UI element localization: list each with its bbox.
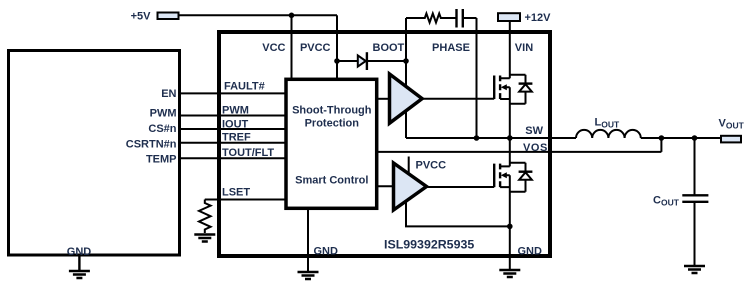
svg-text:PWM: PWM bbox=[222, 105, 249, 117]
wire +5V rail bbox=[180, 14, 338, 16]
node BOOT junction bbox=[403, 58, 409, 64]
svg-text:VIN: VIN bbox=[515, 42, 533, 54]
node COUT tap bbox=[692, 135, 698, 141]
svg-text:Shoot-Through: Shoot-Through bbox=[292, 104, 372, 116]
node PVCC junction bbox=[334, 58, 340, 64]
shoot-through / smart control block bbox=[286, 79, 377, 208]
ground (controller) bbox=[69, 256, 90, 278]
svg-text:ISL99392R5935: ISL99392R5935 bbox=[384, 238, 474, 252]
wire SW to QL drain bbox=[509, 138, 511, 166]
svg-text:GND: GND bbox=[518, 245, 543, 257]
wire TEMP to TOUT/FLT bbox=[179, 157, 286, 159]
svg-text:+5V: +5V bbox=[131, 11, 152, 23]
svg-text:GND: GND bbox=[314, 245, 339, 257]
wire VCC bbox=[291, 15, 293, 79]
svg-text:PVCC: PVCC bbox=[300, 42, 331, 54]
svg-text:LSET: LSET bbox=[222, 187, 250, 199]
svg-text:TOUT/FLT: TOUT/FLT bbox=[222, 147, 274, 159]
ground (COUT) bbox=[684, 266, 705, 273]
wire CS#n to IOUT bbox=[179, 128, 286, 130]
transistor Q L (low-side MOSFET) bbox=[494, 164, 500, 188]
wire driver L input bbox=[376, 185, 395, 187]
node VOS tap bbox=[659, 135, 665, 141]
svg-text:PVCC: PVCC bbox=[416, 160, 447, 172]
svg-text:CSRTN#n: CSRTN#n bbox=[126, 138, 177, 150]
wire EN to FAULT# bbox=[179, 92, 286, 94]
svg-text:VCC: VCC bbox=[262, 42, 285, 54]
wire PHASE vertical bbox=[476, 18, 478, 138]
ground (RSET) bbox=[194, 235, 215, 242]
diode body Q L bbox=[525, 163, 527, 192]
node VCC tap bbox=[289, 13, 295, 19]
svg-text:Protection: Protection bbox=[305, 117, 360, 129]
wire SW rail bbox=[406, 137, 576, 139]
wire driver H output to gate bbox=[422, 98, 494, 100]
svg-text:BOOT: BOOT bbox=[373, 42, 405, 54]
wire PVCC bbox=[336, 15, 338, 79]
wire BOOT vertical bbox=[405, 18, 407, 138]
capacitor COUT bbox=[694, 138, 696, 195]
svg-text:PHASE: PHASE bbox=[432, 42, 470, 54]
capacitor C boot bbox=[457, 9, 463, 28]
wire GND (mid) bbox=[307, 210, 309, 272]
op-amp U L (low-side driver) bbox=[394, 163, 427, 210]
wire cap to PHASE bbox=[464, 17, 477, 19]
wire LSET bbox=[205, 199, 286, 201]
svg-text:VOUT: VOUT bbox=[719, 117, 745, 130]
diode D1 (boot diode) bbox=[337, 60, 357, 62]
svg-text:COUT: COUT bbox=[653, 195, 680, 208]
svg-text:SW: SW bbox=[525, 125, 543, 137]
wire driver L output to gate bbox=[425, 186, 494, 188]
svg-text:EN: EN bbox=[161, 88, 176, 100]
wire PVCC stub (low driver) bbox=[408, 157, 410, 175]
node SW-FET junction bbox=[507, 135, 513, 141]
node PHASE-SW junction bbox=[474, 135, 480, 141]
svg-text:+12V: +12V bbox=[525, 12, 552, 24]
svg-text:PWM: PWM bbox=[150, 108, 177, 120]
ground (mid) bbox=[298, 272, 319, 279]
transistor Q H (high-side MOSFET) bbox=[494, 76, 500, 100]
wire driver L return bbox=[406, 198, 510, 226]
wire VOS sense bbox=[378, 138, 661, 152]
wire GND (right) bbox=[509, 226, 511, 270]
svg-text:FAULT#: FAULT# bbox=[224, 80, 265, 92]
svg-text:LOUT: LOUT bbox=[595, 116, 620, 129]
ground (right) bbox=[499, 270, 520, 277]
svg-text:CS#n: CS#n bbox=[148, 123, 176, 135]
svg-text:TEMP: TEMP bbox=[146, 154, 177, 166]
svg-text:Smart Control: Smart Control bbox=[295, 175, 368, 187]
svg-text:TREF: TREF bbox=[222, 132, 251, 144]
supply +12V bbox=[498, 13, 520, 21]
wire CSRTN#n to TREF bbox=[179, 142, 286, 144]
node QL source junction bbox=[507, 224, 513, 230]
controller block U2 bbox=[9, 51, 180, 256]
wire PWM to PWM bbox=[179, 115, 286, 117]
op-amp U H (high-side driver) bbox=[390, 74, 423, 123]
IC box ISL99392R5935 bbox=[219, 32, 550, 256]
wire driver H input bbox=[376, 98, 391, 100]
wire VIN vertical bbox=[509, 22, 511, 78]
diode body Q H bbox=[525, 75, 527, 104]
resistor RSET bbox=[199, 200, 211, 234]
wire LOUT to VOUT bbox=[641, 137, 721, 139]
inductor LOUT bbox=[576, 130, 641, 138]
resistor R boot bbox=[406, 14, 456, 23]
svg-text:IOUT: IOUT bbox=[222, 119, 249, 131]
